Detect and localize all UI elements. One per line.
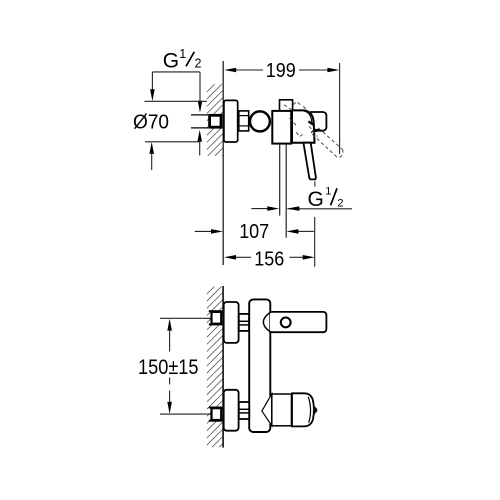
O70 lower arrow: [149, 142, 154, 154]
svg-text:2: 2: [337, 197, 343, 209]
cartridge cap: [292, 110, 315, 142]
wall hatching (top view): [207, 76, 223, 193]
outlet end knob: [292, 393, 314, 426]
supply pipe lower arrow: [197, 130, 202, 142]
hex nut: [239, 111, 249, 131]
dimension 150+-15 extension lines: [160, 317, 211, 319]
lever neck hook: [311, 129, 321, 132]
handle screw ring: [281, 318, 291, 328]
supply union square: [210, 115, 221, 127]
dimension 199: [236, 69, 328, 71]
wall line / left extension line: [222, 61, 224, 265]
outlet cylinder: [272, 394, 292, 426]
lower supply square: [212, 408, 222, 420]
upper supply square: [212, 312, 222, 324]
outlet leader arrows: [287, 208, 352, 210]
valve body: [272, 111, 291, 144]
diverter button on top: [280, 100, 293, 111]
lever root wedge: [308, 121, 313, 124]
handle arm: [270, 313, 326, 332]
leader stem right with arrow to supply pipe: [199, 72, 201, 102]
outlet cone: [262, 394, 272, 426]
svg-text:199: 199: [266, 60, 296, 82]
supply pipe behind wall: [191, 114, 208, 116]
lower union nut: [239, 402, 249, 419]
dimension 107: [195, 230, 212, 232]
svg-text:G: G: [163, 50, 179, 73]
svg-text:156: 156: [254, 248, 284, 270]
dashed swing marks: [284, 102, 343, 158]
wall hatching (bottom view): [207, 278, 223, 488]
wall line: [222, 286, 224, 448]
lower escutcheon: [224, 390, 239, 431]
handle knob (side): [308, 112, 327, 131]
svg-text:1: 1: [325, 185, 331, 197]
cap inner contour: [304, 111, 312, 124]
shower outlet pipe lines: [279, 144, 281, 216]
escutcheon (side): [224, 100, 238, 142]
upper escutcheon: [224, 302, 239, 343]
svg-text:1: 1: [179, 47, 186, 61]
dimension 156: [224, 255, 236, 260]
svg-text:2: 2: [195, 57, 202, 71]
dimension 150+-15: [167, 319, 172, 331]
leader bracket under G 1/2: [152, 71, 200, 73]
upper union nut: [239, 314, 249, 331]
svg-text:150±15: 150±15: [138, 355, 199, 379]
svg-text:Ø70: Ø70: [133, 111, 169, 134]
dimension O70 extension lines: [145, 100, 208, 102]
lever arm: [303, 143, 316, 180]
leader stem left with arrow to escutcheon top line: [151, 72, 153, 91]
body slab: [249, 299, 270, 432]
handle base arc: [263, 312, 270, 331]
svg-text:107: 107: [239, 221, 269, 243]
156 right extension line (broken by G1/2 label): [314, 182, 316, 187]
ball joint: [250, 111, 270, 131]
extension line right of 199: [339, 63, 341, 154]
svg-text:G: G: [308, 188, 324, 211]
